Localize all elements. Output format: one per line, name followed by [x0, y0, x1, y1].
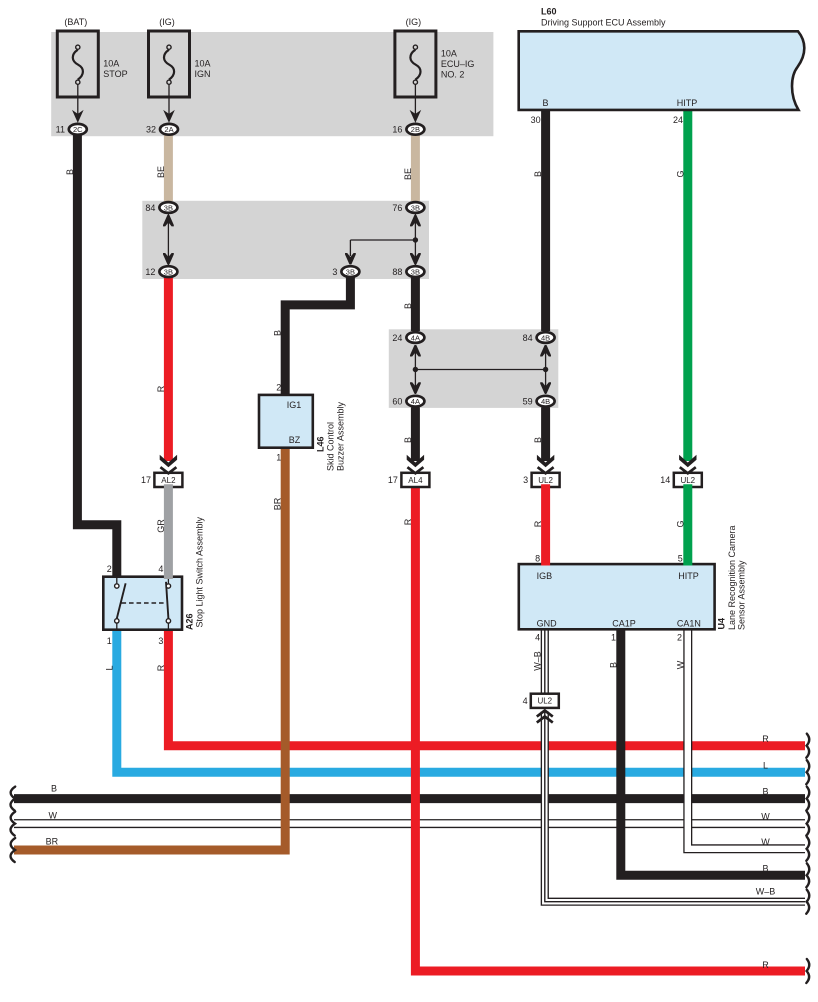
- svg-text:CA1P: CA1P: [612, 619, 636, 629]
- svg-text:4: 4: [535, 633, 540, 643]
- svg-text:59: 59: [523, 397, 533, 407]
- svg-text:4B: 4B: [541, 333, 550, 342]
- svg-text:L46: L46: [315, 436, 325, 452]
- svg-text:BR: BR: [46, 837, 59, 847]
- svg-text:24: 24: [673, 115, 683, 125]
- svg-text:L: L: [763, 760, 768, 770]
- svg-text:Buzzer Assembly: Buzzer Assembly: [335, 401, 345, 471]
- svg-text:10A: 10A: [195, 59, 211, 69]
- svg-text:HITP: HITP: [677, 98, 698, 108]
- svg-text:(BAT): (BAT): [64, 17, 87, 27]
- svg-text:BR: BR: [273, 497, 283, 510]
- svg-text:B: B: [403, 303, 413, 309]
- svg-text:A26: A26: [185, 613, 195, 630]
- svg-text:GR: GR: [156, 519, 166, 533]
- svg-text:IGN: IGN: [195, 69, 211, 79]
- svg-text:2: 2: [276, 383, 281, 393]
- svg-text:3B: 3B: [346, 267, 355, 276]
- svg-text:17: 17: [388, 475, 398, 485]
- svg-text:B: B: [542, 98, 548, 108]
- svg-text:10A: 10A: [441, 49, 457, 59]
- svg-text:84: 84: [145, 203, 155, 213]
- svg-text:1: 1: [611, 633, 616, 643]
- svg-text:88: 88: [392, 267, 402, 277]
- svg-text:30: 30: [531, 115, 541, 125]
- svg-text:B: B: [533, 437, 543, 443]
- svg-text:1: 1: [107, 636, 112, 646]
- svg-text:AL4: AL4: [408, 476, 423, 485]
- svg-text:W–B: W–B: [756, 887, 776, 897]
- svg-text:UL2: UL2: [538, 476, 553, 485]
- svg-text:HITP: HITP: [678, 571, 699, 581]
- svg-text:CA1N: CA1N: [677, 619, 701, 629]
- svg-text:B: B: [403, 437, 413, 443]
- svg-text:17: 17: [141, 475, 151, 485]
- svg-text:3: 3: [523, 475, 528, 485]
- svg-text:IGB: IGB: [537, 571, 553, 581]
- svg-text:4B: 4B: [541, 397, 550, 406]
- svg-text:NO. 2: NO. 2: [441, 70, 465, 80]
- svg-text:(IG): (IG): [159, 17, 175, 27]
- svg-text:24: 24: [392, 333, 402, 343]
- svg-text:4A: 4A: [411, 333, 420, 342]
- svg-text:L60: L60: [541, 7, 557, 17]
- svg-text:L: L: [104, 665, 114, 670]
- svg-text:3: 3: [158, 636, 163, 646]
- svg-text:Skid Control: Skid Control: [325, 422, 335, 471]
- svg-text:R: R: [156, 385, 166, 392]
- svg-text:10A: 10A: [103, 59, 119, 69]
- svg-text:12: 12: [145, 267, 155, 277]
- svg-text:3B: 3B: [164, 203, 173, 212]
- svg-text:B: B: [273, 330, 283, 336]
- svg-text:W: W: [675, 660, 685, 669]
- svg-text:R: R: [156, 664, 166, 671]
- svg-text:R: R: [762, 734, 769, 744]
- svg-text:W: W: [49, 811, 58, 821]
- svg-text:UL2: UL2: [680, 476, 695, 485]
- svg-text:U4: U4: [717, 618, 727, 630]
- svg-text:BE: BE: [156, 166, 166, 178]
- svg-text:11: 11: [56, 125, 65, 135]
- svg-text:8: 8: [535, 554, 540, 564]
- svg-text:B: B: [762, 863, 768, 873]
- svg-text:60: 60: [392, 397, 402, 407]
- svg-text:3: 3: [332, 267, 337, 277]
- svg-text:3B: 3B: [164, 267, 173, 276]
- svg-text:BZ: BZ: [289, 435, 301, 445]
- svg-text:ECU–IG: ECU–IG: [441, 59, 475, 69]
- svg-text:W–B: W–B: [532, 651, 542, 671]
- svg-text:3B: 3B: [411, 203, 420, 212]
- svg-text:AL2: AL2: [161, 476, 176, 485]
- svg-text:4: 4: [158, 564, 163, 574]
- svg-text:84: 84: [523, 333, 533, 343]
- svg-text:STOP: STOP: [103, 69, 127, 79]
- svg-text:BE: BE: [403, 168, 413, 180]
- svg-text:1: 1: [276, 453, 281, 463]
- svg-text:3B: 3B: [411, 267, 420, 276]
- svg-text:R: R: [533, 520, 543, 527]
- svg-text:4: 4: [523, 696, 528, 706]
- svg-text:Stop Light Switch Assembly: Stop Light Switch Assembly: [195, 516, 205, 627]
- svg-text:32: 32: [146, 125, 156, 135]
- svg-text:W: W: [761, 812, 770, 822]
- svg-text:B: B: [65, 169, 75, 175]
- svg-text:W: W: [761, 837, 770, 847]
- svg-text:B: B: [762, 787, 768, 797]
- svg-text:16: 16: [392, 125, 402, 135]
- svg-text:2: 2: [107, 564, 112, 574]
- svg-text:2A: 2A: [164, 125, 173, 134]
- svg-text:R: R: [762, 960, 769, 970]
- svg-text:G: G: [675, 170, 685, 177]
- svg-text:2B: 2B: [411, 125, 420, 134]
- svg-text:B: B: [608, 662, 618, 668]
- svg-text:Driving Support ECU Assembly: Driving Support ECU Assembly: [541, 18, 666, 28]
- svg-text:B: B: [51, 784, 57, 794]
- svg-text:IG1: IG1: [287, 400, 302, 410]
- svg-text:GND: GND: [537, 619, 558, 629]
- svg-text:B: B: [533, 171, 543, 177]
- svg-text:14: 14: [660, 475, 670, 485]
- svg-text:G: G: [675, 520, 685, 527]
- svg-text:R: R: [403, 518, 413, 525]
- svg-text:(IG): (IG): [406, 17, 422, 27]
- svg-text:Lane Recognition Camera: Lane Recognition Camera: [727, 525, 737, 630]
- svg-text:5: 5: [678, 554, 683, 564]
- svg-text:4A: 4A: [411, 397, 420, 406]
- svg-text:2C: 2C: [73, 125, 83, 134]
- svg-text:2: 2: [677, 633, 682, 643]
- svg-text:UL2: UL2: [537, 697, 552, 706]
- svg-text:76: 76: [392, 203, 402, 213]
- svg-text:Sensor Assembly: Sensor Assembly: [737, 560, 747, 630]
